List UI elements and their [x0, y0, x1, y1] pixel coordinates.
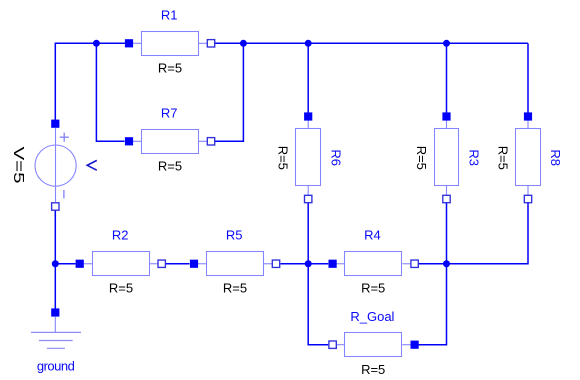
R4 body	[345, 252, 402, 276]
R8 pin n open	[524, 195, 531, 202]
R7 left stub	[129, 140, 141, 142]
V1 minus sign	[63, 190, 65, 198]
svg-text:R=5: R=5	[361, 281, 385, 296]
ground symbol	[31, 308, 81, 373]
wire n5 to R2 left pin	[55, 263, 75, 265]
R2 left stub	[80, 263, 92, 265]
V1 arrow	[87, 160, 97, 170]
svg-text:R=5: R=5	[361, 362, 385, 377]
ground bar 2	[39, 340, 73, 342]
resistor R1	[125, 7, 215, 75]
wire R3 bottom pin to bottom bus	[446, 199, 448, 264]
wire n6 down to R_Goal left pin	[308, 264, 328, 345]
R5 right stub	[264, 263, 276, 265]
R4 right stub	[402, 263, 414, 265]
R8 top stub	[527, 117, 529, 129]
svg-text:R_Goal: R_Goal	[350, 309, 394, 324]
svg-text:R3: R3	[467, 149, 482, 166]
V1 plus sign	[60, 133, 69, 142]
R1 body	[142, 32, 199, 56]
svg-text:R=5: R=5	[109, 281, 133, 296]
R_Goal body	[345, 333, 402, 357]
svg-text:R=5: R=5	[158, 158, 182, 173]
wire R2 right pin to R5 left pin	[166, 263, 190, 265]
resistor R3	[414, 112, 482, 202]
R3 body	[435, 129, 459, 186]
svg-text:R=5: R=5	[414, 146, 429, 170]
svg-text:R6: R6	[328, 149, 343, 166]
R8 bottom stub	[527, 186, 529, 199]
wire n1 down to R7 left pin	[96, 43, 124, 141]
R5 left stub	[194, 263, 206, 265]
R7 body	[142, 130, 199, 154]
R2 body	[93, 252, 150, 276]
V1 pin p filled	[51, 120, 59, 128]
ground bar 1	[31, 331, 81, 333]
R4 left stub	[333, 263, 345, 265]
svg-text:R=5: R=5	[223, 281, 247, 296]
svg-text:R8: R8	[548, 149, 563, 166]
voltage source V1	[11, 120, 97, 211]
node n7 junction	[443, 260, 450, 267]
R3 top stub	[446, 117, 448, 129]
R6 bottom stub	[307, 186, 309, 199]
R3 bottom stub	[446, 186, 448, 199]
R3 pin p filled	[442, 112, 450, 120]
wire top bus corner down to R8 top pin	[527, 43, 529, 117]
ground bar 3	[47, 347, 65, 349]
svg-text:R=5: R=5	[495, 146, 510, 170]
wire top bus to R3 top pin	[446, 43, 448, 117]
V1 body line	[55, 128, 57, 202]
wire R8 bottom pin down and left to bottom bus	[447, 199, 529, 264]
resistor R4	[329, 228, 419, 296]
R8 body	[516, 129, 541, 186]
R6 top stub	[307, 117, 309, 129]
V1 circle	[35, 145, 76, 186]
wire V- down to ground pin	[54, 207, 56, 313]
resistor R6	[276, 112, 344, 202]
ground pin filled	[51, 308, 59, 316]
svg-text:R1: R1	[161, 7, 178, 22]
R1 pin p filled	[125, 39, 133, 47]
resistor R8	[495, 112, 563, 202]
V1 pin n open	[52, 203, 59, 210]
R2 right stub	[149, 263, 161, 265]
node n2 junction	[240, 40, 247, 47]
R2 pin p filled	[76, 260, 84, 268]
wire R6 bottom pin to bottom bus	[307, 199, 309, 264]
resistor R_Goal	[329, 309, 419, 377]
R3 pin n open	[443, 195, 450, 202]
R1 right stub	[199, 42, 211, 44]
R_Goal right stub	[402, 344, 414, 346]
node n3 junction	[305, 40, 312, 47]
R2 pin n open	[158, 260, 165, 267]
wire R7 right pin up to top bus	[215, 43, 243, 141]
svg-text:R2: R2	[112, 228, 129, 243]
R5 body	[207, 252, 264, 276]
R4 pin p filled	[329, 260, 337, 268]
node n1 junction	[93, 40, 100, 47]
svg-text:R4: R4	[364, 228, 381, 243]
wire R4 right pin to node n7	[418, 263, 446, 265]
R6 pin n open	[305, 195, 312, 202]
svg-text:R7: R7	[161, 105, 178, 120]
R7 pin p filled	[125, 137, 133, 145]
wire n6 to R4 left pin	[308, 263, 328, 265]
R7 right stub	[199, 140, 211, 142]
wire top bus right: R1 right pin to R8 top	[215, 42, 528, 44]
R5 pin n open	[272, 260, 279, 267]
R4 pin n open	[411, 260, 418, 267]
wire top bus left: V+ to R1 left pin	[55, 43, 125, 124]
R6 body	[296, 129, 321, 186]
node n5 junction	[52, 260, 59, 267]
R5 pin p filled	[190, 260, 198, 268]
R6 pin p filled	[304, 112, 312, 120]
resistor R7	[125, 105, 215, 173]
svg-text:V=5: V=5	[11, 146, 27, 183]
R7 pin n open	[207, 138, 214, 145]
R8 pin p filled	[524, 112, 532, 120]
R_Goal pin n open	[329, 341, 336, 348]
R1 pin n open	[207, 40, 214, 47]
R1 left stub	[129, 42, 141, 44]
svg-text:R=5: R=5	[158, 60, 182, 75]
R_Goal pin p filled	[411, 341, 419, 349]
ground stem	[54, 317, 56, 333]
svg-text:R=5: R=5	[276, 146, 291, 170]
wire R5 right pin to node n6	[281, 263, 309, 265]
svg-text:R5: R5	[226, 228, 243, 243]
wire top bus to R6 top pin	[307, 43, 309, 117]
wire R_Goal right pin up to node n7	[418, 264, 446, 345]
svg-text:ground: ground	[37, 358, 75, 373]
R_Goal left stub	[333, 344, 345, 346]
node n4 junction	[443, 40, 450, 47]
node n6 junction	[305, 260, 312, 267]
resistor R2	[76, 228, 166, 296]
resistor R5	[190, 228, 280, 296]
